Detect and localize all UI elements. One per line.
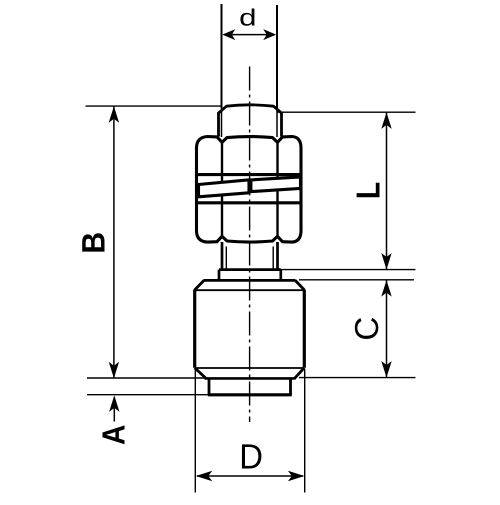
hex nut lower top edge xyxy=(195,201,302,204)
dimension L arrowhead top xyxy=(381,112,391,128)
centerline xyxy=(249,67,251,423)
D extension line left xyxy=(194,369,196,493)
nut gap side left xyxy=(195,175,198,203)
threaded rod left line xyxy=(221,4,223,108)
hex nut upper outline xyxy=(197,137,302,176)
dimension C arrowhead bottom xyxy=(381,361,391,378)
nut gap facet right xyxy=(276,175,278,203)
dimension d line xyxy=(224,34,274,36)
dimension B arrowhead top xyxy=(109,106,119,123)
extension line right (L bottom) xyxy=(281,269,416,271)
body bottom shoulder line xyxy=(196,367,303,369)
nut gap side right xyxy=(299,175,302,203)
dimension d arrowhead left xyxy=(222,29,235,40)
hex nut lower facet line left xyxy=(221,203,223,237)
extension line right (C bottom) xyxy=(299,377,416,379)
svg-text:L: L xyxy=(351,182,388,199)
nut gap facet left xyxy=(221,175,223,203)
body top shoulder line xyxy=(196,289,304,291)
dimension B line xyxy=(113,107,115,379)
dimension C line xyxy=(386,280,388,377)
rod below nut right xyxy=(276,242,279,270)
flange side right xyxy=(279,270,282,281)
extension line right (C top) xyxy=(299,279,414,281)
svg-text:B: B xyxy=(76,232,112,254)
body bottom chamfer left xyxy=(195,368,206,379)
collar top edge xyxy=(205,377,296,380)
extension line bottom left lower (A bottom) xyxy=(87,394,208,396)
dimension C arrowhead top xyxy=(381,280,391,297)
hex nut lower outline xyxy=(197,203,302,242)
thread minor line left xyxy=(225,247,227,270)
dimension A arrowhead xyxy=(109,395,119,412)
body top edge xyxy=(204,279,296,282)
svg-text:A: A xyxy=(96,425,132,445)
flange side left xyxy=(218,270,221,281)
extension line bottom left upper (B bottom / A top) xyxy=(87,377,205,379)
hex nut upper facet line left xyxy=(221,142,223,176)
hex nut upper bottom edge xyxy=(195,173,302,176)
dimension L line xyxy=(386,112,388,269)
hex nut lower facet line right xyxy=(276,203,278,237)
svg-text:d: d xyxy=(239,5,256,31)
threaded rod right line xyxy=(276,5,278,108)
dimension D line xyxy=(197,475,303,477)
dimension L arrowhead bottom xyxy=(381,253,391,270)
body top chamfer left xyxy=(195,280,204,290)
dimension B arrowhead bottom xyxy=(109,362,119,379)
dimension A arrow line xyxy=(113,397,115,422)
hex nut upper facet line right xyxy=(276,142,278,176)
rod below nut left xyxy=(221,242,224,270)
threaded rod left line inside chamfer cap xyxy=(221,108,223,137)
D extension line right xyxy=(304,369,306,493)
break strip right xyxy=(251,177,301,192)
extension line top left (B top) xyxy=(86,105,223,107)
svg-text:C: C xyxy=(349,317,386,341)
svg-text:D: D xyxy=(239,437,263,476)
body side left xyxy=(193,290,196,368)
thread minor line right xyxy=(272,247,274,270)
body top chamfer right xyxy=(295,280,304,290)
body bottom chamfer right xyxy=(295,368,305,379)
body side right xyxy=(303,290,306,368)
extension line top right (L top) xyxy=(277,111,416,113)
threaded rod right line inside chamfer cap xyxy=(276,108,278,137)
dimension D arrowhead right xyxy=(288,471,305,481)
dimension d arrowhead right xyxy=(263,29,276,40)
break strip left xyxy=(199,180,250,197)
dimension D arrowhead left xyxy=(196,471,213,481)
thread chamfer cap xyxy=(219,105,282,137)
collar side right xyxy=(289,378,292,394)
flange top edge xyxy=(219,268,281,271)
collar side left xyxy=(208,378,211,394)
collar bottom edge xyxy=(208,393,292,396)
